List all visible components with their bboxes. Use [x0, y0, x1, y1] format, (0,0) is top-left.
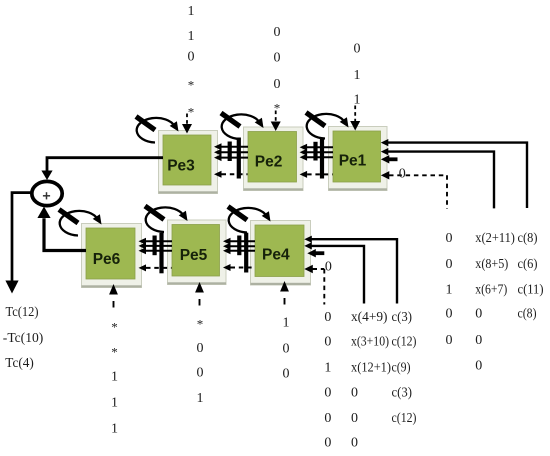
- svg-text:0: 0: [351, 411, 358, 426]
- svg-text:0: 0: [325, 259, 332, 274]
- self-loop arrow with slash at Pe6: [59, 210, 102, 236]
- svg-text:c(3): c(3): [392, 386, 413, 401]
- processing element Pe1: [329, 127, 388, 191]
- svg-text:c(8): c(8): [518, 307, 537, 322]
- adder node (+): [32, 181, 62, 205]
- svg-text:1: 1: [354, 68, 361, 83]
- wire from Pe3 output to adder input: [41, 158, 163, 180]
- svg-text:x(3+10): x(3+10): [351, 335, 389, 350]
- svg-text:c(12): c(12): [392, 335, 417, 350]
- wire into Pe1 right from column c(8): [381, 139, 527, 208]
- bus arrows Pe4 to Pe5: [223, 233, 255, 273]
- processing element Pe6: [82, 224, 142, 288]
- svg-text:0: 0: [399, 167, 406, 182]
- svg-text:1: 1: [111, 422, 118, 437]
- svg-text:0: 0: [446, 231, 453, 246]
- svg-text:0: 0: [324, 411, 331, 426]
- svg-text:x(8+5): x(8+5): [475, 257, 508, 272]
- svg-text:0: 0: [475, 359, 482, 374]
- svg-text:0: 0: [274, 51, 281, 66]
- wire into Pe4 right from column c(3): [304, 236, 397, 304]
- svg-text:0: 0: [446, 307, 453, 322]
- self-loop arrow with slash at Pe4: [228, 207, 271, 233]
- processing element Pe4: [251, 221, 311, 286]
- svg-text:0: 0: [324, 335, 331, 350]
- svg-text:c(9): c(9): [392, 361, 411, 376]
- svg-text:Pe3: Pe3: [167, 158, 195, 175]
- processing element Pe2: [244, 127, 304, 191]
- svg-text:0: 0: [197, 366, 204, 381]
- wire from Pe6 output to adder input: [37, 207, 86, 251]
- svg-text:Pe4: Pe4: [262, 246, 290, 263]
- svg-text:0: 0: [324, 436, 331, 451]
- svg-text:*: *: [111, 344, 118, 359]
- input data column below Pe5: [195, 282, 204, 406]
- svg-text:0: 0: [475, 307, 482, 322]
- svg-text:Pe6: Pe6: [93, 251, 121, 268]
- svg-text:0: 0: [354, 42, 361, 57]
- svg-text:0: 0: [324, 386, 331, 401]
- svg-text:1: 1: [197, 391, 204, 406]
- svg-text:0: 0: [283, 342, 290, 357]
- svg-text:c(3): c(3): [392, 310, 413, 325]
- svg-text:1: 1: [111, 396, 118, 411]
- svg-text:0: 0: [274, 77, 281, 92]
- svg-text:1: 1: [111, 370, 118, 385]
- svg-text:c(12): c(12): [392, 411, 417, 426]
- svg-text:Pe1: Pe1: [339, 153, 367, 170]
- svg-text:0: 0: [446, 333, 453, 348]
- dashed wire with 0 into Pe1 right: [381, 167, 447, 210]
- svg-text:Tc(4): Tc(4): [5, 356, 34, 371]
- svg-text:x(6+7): x(6+7): [475, 283, 507, 298]
- input data column above Pe1: [350, 42, 360, 131]
- self-loop arrow with slash at Pe5: [145, 206, 188, 232]
- svg-text:1: 1: [188, 4, 195, 19]
- svg-text:Pe2: Pe2: [255, 154, 283, 171]
- self-loop arrow with slash at Pe1: [306, 113, 349, 139]
- svg-text:x(12+1): x(12+1): [351, 361, 391, 376]
- svg-text:c(11): c(11): [518, 283, 544, 298]
- wire into Pe4 right from column c(12): [304, 242, 364, 303]
- svg-text:0: 0: [274, 25, 281, 40]
- svg-text:c(6): c(6): [518, 257, 538, 272]
- short input arrow into Pe1 right: [381, 155, 398, 163]
- svg-text:Tc(12): Tc(12): [6, 305, 39, 320]
- bus arrows Pe2 to Pe3: [214, 138, 248, 179]
- bus arrows Pe5 to Pe6: [139, 233, 173, 273]
- svg-text:0: 0: [475, 333, 482, 348]
- svg-text:0: 0: [351, 436, 358, 451]
- short input arrow into Pe4 right: [307, 249, 324, 257]
- svg-text:*: *: [197, 316, 204, 331]
- self-loop arrow with slash at Pe3: [136, 117, 179, 143]
- data table for Pe1 inputs: [446, 231, 544, 374]
- svg-text:0: 0: [324, 310, 331, 325]
- svg-text:1: 1: [354, 93, 361, 108]
- svg-text:0: 0: [188, 50, 195, 65]
- svg-text:Pe5: Pe5: [180, 247, 208, 264]
- svg-text:*: *: [188, 104, 195, 119]
- svg-text:1: 1: [324, 361, 331, 376]
- processing element Pe3: [159, 131, 218, 194]
- input data column above Pe3: [182, 4, 195, 133]
- svg-text:0: 0: [197, 341, 204, 356]
- svg-text:*: *: [188, 77, 195, 92]
- dashed wire with 0 into Pe4 right: [304, 259, 332, 304]
- wire into Pe1 right from column c(6): [381, 148, 494, 208]
- adder output arrow to Tc results: [5, 193, 33, 294]
- svg-text:0: 0: [446, 257, 453, 272]
- svg-text:c(8): c(8): [518, 231, 538, 246]
- svg-text:0: 0: [283, 367, 290, 382]
- svg-text:x(2+11): x(2+11): [475, 231, 515, 246]
- data table for Pe4 inputs: [324, 310, 416, 451]
- bus arrows Pe1 to Pe2: [300, 138, 333, 179]
- svg-text:1: 1: [188, 29, 195, 44]
- svg-text:1: 1: [446, 283, 453, 298]
- svg-text:0: 0: [351, 386, 358, 401]
- self-loop arrow with slash at Pe2: [221, 113, 264, 139]
- input data column below Pe4: [280, 281, 289, 382]
- svg-text:*: *: [274, 100, 281, 115]
- input data column below Pe6: [109, 284, 118, 437]
- svg-text:1: 1: [283, 316, 290, 331]
- svg-text:x(4+9): x(4+9): [351, 310, 388, 325]
- svg-text:-Tc(10): -Tc(10): [3, 331, 44, 346]
- svg-text:*: *: [111, 319, 118, 334]
- input data column above Pe2: [271, 25, 281, 131]
- processing element Pe5: [168, 220, 227, 285]
